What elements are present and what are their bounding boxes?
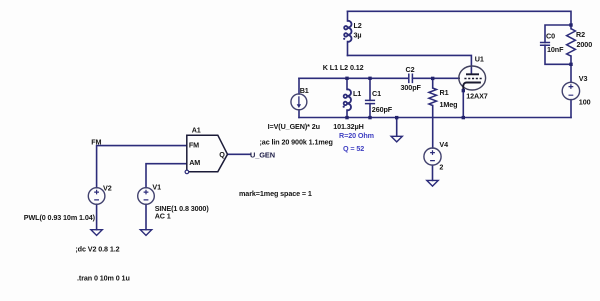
svg-text:12AX7: 12AX7 [466, 91, 488, 100]
svg-text:L2: L2 [354, 21, 362, 30]
svg-text:R=20 Ohm: R=20 Ohm [339, 131, 374, 140]
svg-text:B1: B1 [300, 86, 309, 95]
svg-text:AC 1: AC 1 [155, 211, 171, 220]
svg-text:PWL(0 0.93 10m 1.04): PWL(0 0.93 10m 1.04) [24, 213, 96, 222]
svg-text:R1: R1 [440, 88, 449, 97]
svg-text:Q = 52: Q = 52 [343, 144, 364, 153]
svg-text:101.32µH: 101.32µH [333, 122, 364, 131]
svg-text:1Meg: 1Meg [440, 100, 458, 109]
svg-text:V1: V1 [152, 183, 161, 192]
svg-text:10nF: 10nF [547, 45, 564, 54]
svg-text:mark=1meg space = 1: mark=1meg space = 1 [239, 189, 312, 198]
svg-text:300pF: 300pF [401, 83, 422, 92]
svg-text:.tran 0 10m 0 1u: .tran 0 10m 0 1u [77, 274, 130, 283]
svg-text:K L1 L2 0.12: K L1 L2 0.12 [323, 63, 364, 72]
svg-text:Q: Q [219, 150, 225, 159]
svg-text:A1: A1 [192, 125, 201, 134]
svg-text:;ac lin 20 900k 1.1meg: ;ac lin 20 900k 1.1meg [260, 138, 333, 147]
svg-text:2000: 2000 [577, 40, 593, 49]
svg-text:V4: V4 [439, 140, 448, 149]
svg-text:U1: U1 [475, 54, 484, 63]
svg-text:U_GEN: U_GEN [250, 151, 275, 160]
svg-text:L1: L1 [353, 89, 361, 98]
svg-text:100: 100 [579, 98, 591, 107]
svg-text:I=V(U_GEN)* 2u: I=V(U_GEN)* 2u [268, 122, 320, 131]
svg-text:260pF: 260pF [372, 105, 393, 114]
svg-text:V2: V2 [103, 184, 112, 193]
svg-text:C2: C2 [406, 65, 415, 74]
svg-text:AM: AM [189, 158, 200, 167]
svg-text:V3: V3 [579, 74, 588, 83]
svg-text:;dc V2 0.8 1.2: ;dc V2 0.8 1.2 [75, 244, 119, 253]
svg-text:R2: R2 [576, 30, 585, 39]
svg-text:C1: C1 [372, 89, 381, 98]
svg-text:C0: C0 [546, 32, 555, 41]
svg-text:2: 2 [439, 162, 443, 171]
svg-text:FM: FM [189, 140, 199, 149]
svg-text:3µ: 3µ [354, 31, 362, 40]
svg-text:FM: FM [91, 137, 101, 146]
